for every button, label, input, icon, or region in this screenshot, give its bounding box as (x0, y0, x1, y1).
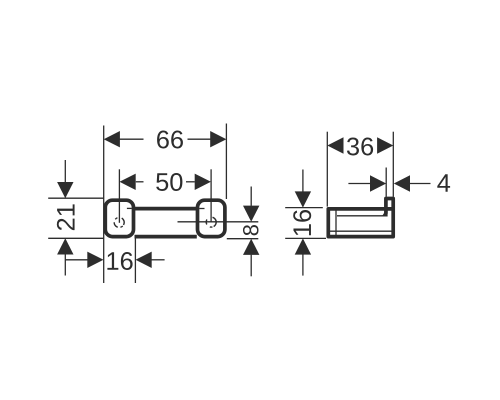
label 16 left view (107, 252, 132, 270)
label 21 (57, 204, 75, 230)
arrow 21 top (57, 182, 73, 198)
hook inner fillet (382, 208, 388, 217)
arrow 16 right (136, 252, 152, 268)
dimension line 16 right view (302, 170, 304, 192)
extension line 16 bottom right view (285, 237, 326, 239)
arrow 66 left (104, 131, 120, 147)
arrow 4 left (370, 175, 386, 191)
label 8 (243, 225, 259, 235)
label 16 right view (293, 210, 311, 235)
dimension line 66 (119, 138, 144, 140)
dimension line 16 left view (65, 259, 88, 261)
arrow 8 top (243, 206, 259, 222)
arrow 4 right (394, 175, 410, 191)
dimension line 8 (250, 187, 252, 206)
extension line 16 right (134, 238, 136, 283)
extension line 66 left (103, 126, 105, 284)
arrow 36 left (327, 137, 343, 153)
side view body outline (328, 199, 393, 237)
arrow 66 right (210, 131, 226, 147)
bar top edge (135, 207, 197, 211)
side view wall plate edge (335, 209, 337, 236)
bar bottom edge (135, 235, 197, 239)
dimension line 50 (136, 181, 144, 183)
centerline right hole vertical (210, 169, 212, 222)
label 4 (437, 174, 450, 191)
extension line 8 bottom (227, 238, 258, 240)
left hook square (105, 200, 133, 236)
label 36 (347, 138, 373, 156)
arrow 50 left (120, 174, 136, 190)
dimension line 21 (64, 160, 66, 183)
screw hole left (112, 216, 126, 230)
centerline left hole (118, 169, 120, 223)
arrow 21 bottom (57, 238, 73, 254)
arrow 16 right view top (295, 191, 311, 207)
arrow 16 left (87, 252, 103, 268)
extension line 66 right (225, 124, 227, 200)
dimension line 4 (348, 183, 371, 185)
arrow 50 right (195, 174, 211, 190)
extension line 4 left (385, 168, 387, 197)
extension line 16 top right view (285, 207, 323, 209)
extension line 21 top (48, 197, 103, 199)
extension line 36 left (326, 132, 328, 207)
label 66 (157, 131, 183, 149)
extension line 21 bottom (48, 237, 103, 239)
centerline right hole horizontal (178, 221, 259, 223)
side view inner bottom edge (329, 230, 394, 232)
screw hole right (205, 216, 217, 228)
bar edge stub in right square (199, 208, 204, 210)
side view arm top edge (337, 215, 383, 217)
arrow 16 right view bottom (295, 238, 311, 254)
bar edge stub in left square (127, 207, 132, 209)
label 50 (156, 173, 182, 191)
right hook square (198, 200, 225, 236)
arrow 36 right (377, 137, 393, 153)
arrow 8 bottom (243, 239, 259, 255)
extension line 36 / 4 right (392, 132, 394, 197)
